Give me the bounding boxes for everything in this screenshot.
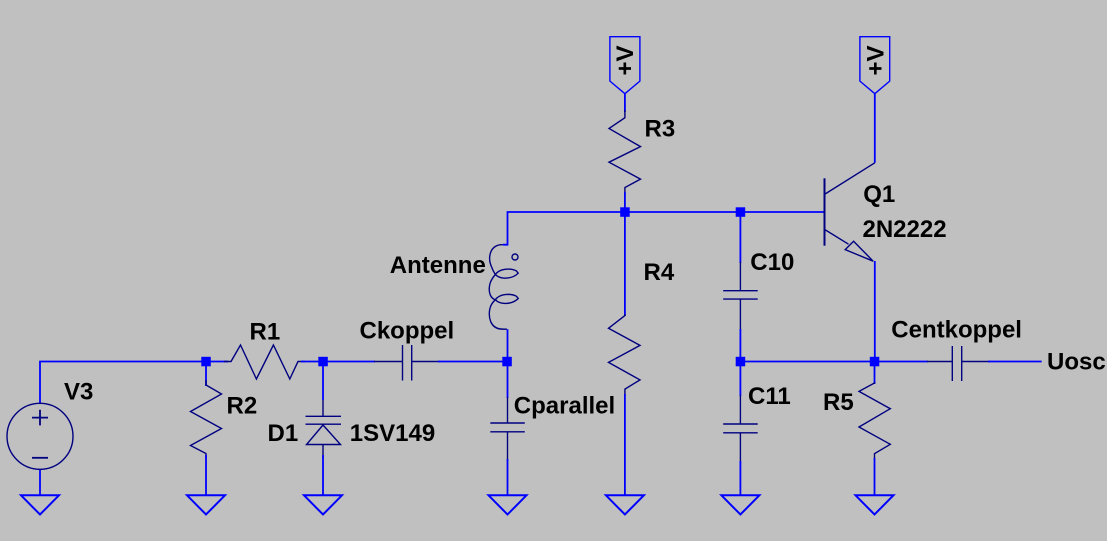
wire node F to emitter node	[740, 361, 874, 363]
svg-text:Antenne: Antenne	[390, 252, 486, 279]
capacitor C11	[723, 395, 758, 463]
inductor Antenne	[489, 245, 518, 330]
resistor R4	[609, 314, 641, 396]
node D junction square	[620, 207, 630, 217]
resistor R3	[609, 110, 641, 194]
ground (C11)	[721, 495, 759, 514]
voltage source V3	[7, 403, 73, 469]
capacitor Centkoppel	[927, 346, 990, 381]
wire V3 top to node A	[40, 362, 206, 404]
svg-text:R4: R4	[644, 259, 675, 286]
svg-text:+V: +V	[612, 45, 639, 75]
capacitor Cparallel	[490, 397, 525, 461]
svg-text:+V: +V	[863, 45, 890, 75]
svg-text:Uosc: Uosc	[1047, 348, 1106, 375]
wire node G to Centkoppel	[875, 361, 929, 363]
wire node D to R4	[624, 212, 626, 316]
wire C11 to ground	[739, 461, 741, 495]
node E junction square	[736, 207, 746, 217]
wire Cparallel to ground	[507, 459, 509, 495]
svg-text:R5: R5	[823, 389, 854, 416]
svg-text:C10: C10	[750, 249, 794, 276]
svg-text:2N2222: 2N2222	[863, 216, 947, 243]
ground (R4)	[606, 495, 644, 514]
wire node B to Ckoppel	[323, 361, 375, 363]
svg-text:V3: V3	[64, 378, 93, 405]
svg-text:D1: D1	[268, 420, 299, 447]
power flag +V (right)	[860, 37, 890, 94]
power flag +V (left)	[610, 37, 640, 94]
wire R2 to ground	[205, 455, 207, 495]
wire Q1 emitter to node G	[874, 261, 876, 362]
node B junction square	[318, 357, 328, 367]
resistor R5	[859, 382, 890, 460]
wire node A to R2	[205, 362, 207, 387]
wire top rail	[503, 212, 824, 245]
wire Ckoppel to node C	[438, 361, 507, 363]
wire Centkoppel to Uosc	[988, 361, 1042, 363]
svg-text:1SV149: 1SV149	[350, 420, 435, 447]
svg-text:R2: R2	[227, 393, 258, 420]
wire node F to C11	[739, 362, 741, 397]
wire R5 to ground	[874, 458, 876, 495]
node G junction square	[870, 357, 880, 367]
wire node C to Cparallel	[507, 362, 509, 399]
wire D1 to ground	[322, 455, 324, 495]
svg-text:Ckoppel: Ckoppel	[360, 317, 455, 344]
svg-text:Centkoppel: Centkoppel	[891, 316, 1022, 343]
ground (V3)	[21, 495, 59, 514]
wire C10 to node F	[739, 329, 741, 362]
ground (R2)	[187, 495, 225, 514]
svg-text:R3: R3	[645, 116, 676, 143]
wire Antenne to node C	[507, 329, 509, 361]
ground (Cparallel)	[489, 495, 527, 514]
wire node G to R5	[874, 362, 876, 385]
node A junction square	[201, 357, 211, 367]
varactor diode D1	[306, 400, 342, 458]
resistor R2	[191, 380, 222, 459]
transistor Q1	[825, 163, 875, 261]
wire +V to R3	[624, 94, 626, 112]
svg-text:Q1: Q1	[863, 181, 895, 208]
svg-text:Cparallel: Cparallel	[514, 392, 615, 419]
node C junction square	[502, 357, 512, 367]
wire node B to D1	[322, 362, 324, 401]
wire +V to Q1 collector	[874, 94, 876, 163]
svg-text:R1: R1	[250, 318, 281, 345]
ground (D1)	[304, 495, 342, 514]
wire R1 to node B	[301, 361, 323, 363]
wire node E to C10	[739, 212, 741, 263]
svg-text:C11: C11	[748, 383, 791, 410]
wire V3 bottom to ground	[39, 469, 41, 495]
wire R4 to ground	[624, 394, 626, 495]
node F junction square	[736, 357, 746, 367]
wire node A to R1	[206, 361, 228, 363]
ground (R5)	[856, 495, 894, 514]
capacitor C10	[723, 262, 758, 331]
capacitor Ckoppel	[374, 345, 440, 381]
resistor R1	[224, 345, 305, 379]
wire R3 to node D	[624, 192, 626, 212]
